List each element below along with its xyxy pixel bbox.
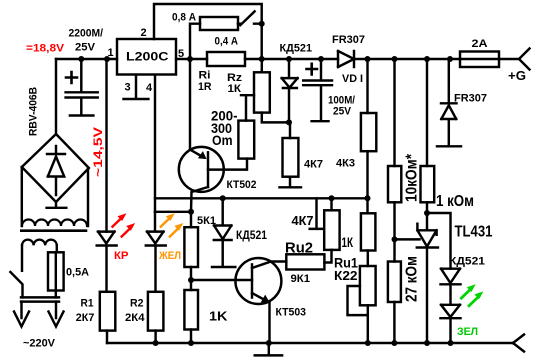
transistor Q2 KT503 bbox=[235, 258, 281, 304]
node dot rail x261 bbox=[259, 56, 265, 62]
green arrows green LEDs bbox=[460, 284, 483, 307]
ground bridge bottom bbox=[47, 202, 67, 208]
transistor Q1 KT502 emitter wire bbox=[189, 59, 191, 150]
svg-text:25V: 25V bbox=[333, 106, 352, 118]
node dot 191-212 bbox=[188, 209, 194, 215]
mains plug double line bbox=[21, 297, 59, 301]
svg-text:4: 4 bbox=[146, 82, 153, 94]
node dot 331-198 bbox=[329, 195, 335, 201]
bridge inner diode bbox=[47, 146, 65, 195]
switch mains bbox=[10, 272, 22, 297]
resistor 5K1 bbox=[190, 212, 192, 227]
svg-text:10кОм*: 10кОм* bbox=[404, 153, 421, 202]
output terminal +G bbox=[519, 49, 530, 70]
svg-text:4К7: 4К7 bbox=[292, 213, 314, 228]
svg-text:Ru2: Ru2 bbox=[285, 240, 313, 257]
svg-text:КР: КР bbox=[114, 250, 129, 262]
resistor 1K box1 bbox=[330, 198, 332, 210]
diode VD2 KD521 bbox=[282, 59, 298, 122]
LED HL1 KP red feed bbox=[105, 59, 107, 232]
node dot 222-198 bbox=[220, 195, 226, 201]
svg-text:RBV-406В: RBV-406В bbox=[28, 87, 40, 136]
svg-text:ЖЕЛ: ЖЕЛ bbox=[158, 250, 181, 262]
fuse FU2 0,4A bbox=[207, 52, 245, 66]
transistor Q2 KT503 base wire bbox=[191, 279, 252, 281]
svg-text:0,8 А: 0,8 А bbox=[172, 12, 196, 24]
fuse FU4 2A bbox=[460, 52, 499, 68]
node dot 367-198 bbox=[365, 195, 371, 201]
wire tl431 ref bbox=[395, 238, 420, 240]
resistor 1kOm bbox=[426, 59, 428, 166]
svg-text:1К: 1К bbox=[342, 234, 354, 250]
output terminal minus bbox=[513, 335, 524, 352]
node dot bottom 394 bbox=[391, 340, 397, 346]
svg-text:27 кОм: 27 кОм bbox=[404, 256, 421, 302]
svg-text:+G: +G bbox=[508, 68, 526, 83]
transistor Q1 KT502 bbox=[179, 147, 224, 192]
svg-text:КТ503: КТ503 bbox=[276, 307, 307, 319]
svg-text:=18,8V: =18,8V bbox=[26, 43, 65, 55]
transformer core bbox=[21, 229, 86, 232]
node dot rail x427 bbox=[424, 56, 430, 62]
svg-text:КД521: КД521 bbox=[280, 43, 313, 55]
wire bottom rail bbox=[107, 342, 513, 344]
svg-text:1 кОм: 1 кОм bbox=[436, 193, 474, 210]
svg-text:2К4: 2К4 bbox=[125, 312, 145, 324]
wire from rail corner down to bridge top bbox=[55, 59, 57, 134]
wire top rail right segment bbox=[176, 58, 519, 60]
svg-text:L200C: L200C bbox=[126, 50, 169, 64]
svg-text:~220V: ~220V bbox=[23, 338, 56, 350]
svg-text:2А: 2А bbox=[472, 38, 488, 50]
resistor 1K box2 bbox=[366, 198, 368, 213]
capacitor C1 2200M/25V bbox=[66, 59, 98, 114]
transformer T1 secondary bbox=[21, 167, 23, 226]
svg-text:КД521: КД521 bbox=[236, 228, 267, 242]
node dot 289-122 bbox=[286, 119, 292, 125]
node dot rail x450 bbox=[447, 56, 453, 62]
resistor 4K3 bbox=[366, 59, 368, 113]
trimmer Ru1 K22 bbox=[360, 266, 376, 305]
wire top rail left segment bbox=[56, 58, 117, 60]
capacitor C2 100M/25V bbox=[303, 59, 332, 121]
svg-text:2200М/: 2200М/ bbox=[69, 28, 104, 40]
node dot bottom 155 bbox=[153, 340, 159, 346]
mains arrow right bbox=[49, 302, 64, 327]
svg-text:2: 2 bbox=[141, 27, 147, 39]
node dot rail x321 bbox=[318, 56, 324, 62]
red arrows KP bbox=[112, 213, 136, 237]
svg-text:TL431: TL431 bbox=[455, 224, 493, 241]
svg-text:25V: 25V bbox=[75, 42, 96, 54]
resistor Ru2 9K1 bbox=[286, 254, 324, 269]
fuse FU3 0,5A bbox=[48, 252, 64, 290]
node dot rail x190 pin5 bbox=[187, 56, 193, 62]
node dot bottom 449 bbox=[448, 340, 454, 346]
svg-text:FR307: FR307 bbox=[332, 34, 365, 46]
resistor R2 2K4 bbox=[148, 292, 164, 331]
shunt regulator U2 TL431 bbox=[417, 213, 438, 343]
resistor 4K7 first bbox=[283, 138, 299, 177]
svg-text:Om: Om bbox=[212, 132, 233, 148]
bridge rectifier VD RBV-406B bbox=[22, 134, 89, 202]
wire pin2 top loop bbox=[154, 4, 262, 59]
resistor 1K third bbox=[184, 290, 198, 330]
resistor 27kOm bbox=[388, 262, 401, 303]
resistor Rz 1K bbox=[254, 72, 270, 112]
svg-text:4К7: 4К7 bbox=[304, 159, 323, 171]
svg-text:~14,5V: ~14,5V bbox=[91, 127, 105, 177]
diode VD4 KD521 bbox=[212, 198, 235, 267]
node dot tl431 ref bbox=[392, 236, 398, 242]
node dot 0.8A switch bbox=[259, 21, 265, 27]
svg-text:VD I: VD I bbox=[342, 73, 363, 85]
svg-text:1K: 1K bbox=[209, 309, 228, 324]
ground bottom rail bbox=[255, 343, 282, 355]
svg-text:КТ502: КТ502 bbox=[227, 179, 257, 191]
svg-text:9К1: 9К1 bbox=[291, 273, 311, 285]
resistor R1 2K7 bbox=[100, 292, 116, 331]
node dot rail x367 bbox=[365, 56, 371, 62]
wire to green leds bbox=[427, 213, 451, 269]
svg-text:ЗЕЛ: ЗЕЛ bbox=[457, 326, 478, 338]
node dot 427-213 bbox=[424, 210, 430, 216]
svg-text:R1: R1 bbox=[81, 298, 94, 310]
svg-text:4К3: 4К3 bbox=[336, 157, 355, 169]
mains arrow left bbox=[14, 302, 29, 327]
ground pins 3-4 bbox=[124, 75, 149, 99]
node dot bottom 190 bbox=[188, 340, 194, 346]
plus sign C1 bbox=[66, 72, 77, 83]
LED HL3 green bbox=[441, 269, 461, 305]
svg-text:2К7: 2К7 bbox=[76, 312, 95, 324]
svg-text:0,5А: 0,5А bbox=[66, 267, 89, 279]
svg-text:5: 5 bbox=[178, 48, 184, 60]
node dot bottom 427 bbox=[424, 340, 430, 346]
svg-text:КД521: КД521 bbox=[449, 256, 485, 268]
op-amp U1 regulator L200C box bbox=[117, 39, 176, 75]
diode VD3 FR307 vertical bbox=[437, 59, 461, 146]
node dot bottom 268 bbox=[266, 340, 272, 346]
switch SA1 bbox=[238, 11, 262, 25]
orange arrows yellow LED bbox=[160, 213, 184, 237]
node dot rail x81 bbox=[78, 56, 84, 62]
resistor 10kOm bbox=[393, 59, 395, 166]
fuse FU1 0,8A bbox=[190, 24, 200, 59]
wire mid rail y198 bbox=[155, 197, 368, 199]
svg-text:Ri: Ri bbox=[199, 70, 211, 82]
svg-text:1: 1 bbox=[108, 47, 114, 59]
svg-text:1R: 1R bbox=[198, 81, 212, 93]
ground mid wire bbox=[310, 198, 323, 229]
transformer T1 primary bbox=[22, 240, 57, 246]
diode VD1 FR307 bbox=[338, 51, 354, 67]
node dot 191-280 bbox=[188, 277, 194, 283]
svg-text:3: 3 bbox=[125, 82, 131, 94]
svg-text:R2: R2 bbox=[130, 298, 144, 310]
LED HL4 green bbox=[441, 305, 461, 343]
plus sign C2 bbox=[307, 64, 318, 75]
node dot bottom 367 bbox=[365, 340, 371, 346]
resistor 200-300 Om bbox=[238, 121, 254, 159]
node dot rail x289 bbox=[286, 56, 292, 62]
wire base KT502 bbox=[208, 159, 247, 170]
svg-text:1К: 1К bbox=[228, 83, 242, 95]
LED HL1 KP bbox=[97, 232, 117, 292]
svg-text:К22: К22 bbox=[334, 268, 358, 283]
wire pin4 down bbox=[154, 75, 156, 212]
node dot rail x107 bbox=[104, 56, 110, 62]
svg-text:FR307: FR307 bbox=[454, 93, 487, 105]
node dot rail x394 bbox=[392, 56, 398, 62]
wire yellow node to collector bbox=[155, 211, 191, 213]
LED HL2 yellow bbox=[146, 212, 166, 292]
svg-text:5К1: 5К1 bbox=[197, 215, 216, 227]
svg-text:0,4 А: 0,4 А bbox=[215, 36, 239, 48]
